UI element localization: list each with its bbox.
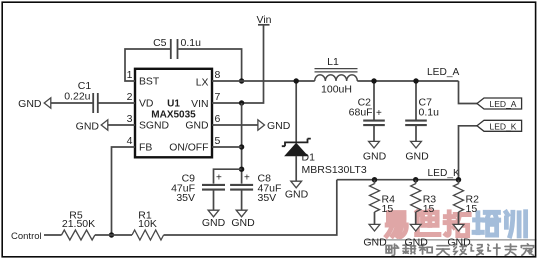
svg-text:+: + [216, 173, 222, 184]
svg-text:VIN: VIN [191, 99, 208, 110]
svg-text:2: 2 [127, 91, 133, 103]
watermark subtitle 射频和天线设计专家 [386, 244, 533, 256]
wire LED_A drop [459, 81, 478, 104]
wire pin5 ON/OFF [212, 146, 242, 148]
svg-text:8: 8 [215, 69, 221, 81]
ground pin6 [258, 120, 265, 130]
wire C7 to ground [415, 125, 417, 142]
wire C5 to LX node [178, 49, 241, 81]
ground R4 [369, 224, 380, 231]
svg-text:GND: GND [202, 217, 226, 229]
svg-text:GND: GND [18, 98, 42, 110]
svg-text:GND: GND [405, 237, 429, 249]
svg-text:4: 4 [127, 135, 133, 147]
node ON/OFF [239, 144, 244, 149]
resistor R4 [374, 180, 376, 184]
svg-text:15: 15 [423, 203, 435, 215]
wire LED_K riser to connector [459, 126, 478, 180]
svg-text:GND: GND [405, 151, 429, 163]
svg-text:SGND: SGND [139, 121, 169, 132]
ground C1 [44, 98, 51, 108]
watermark logo 易迪拓培训 [387, 211, 526, 237]
svg-text:35V: 35V [258, 192, 277, 204]
svg-text:10K: 10K [138, 218, 157, 230]
ground D1 [291, 181, 302, 188]
ground C9 [208, 210, 219, 217]
svg-text:6: 6 [215, 113, 221, 125]
svg-text:+: + [376, 108, 382, 119]
wire D1 to ground [295, 156, 297, 182]
watermark rule line [366, 239, 537, 241]
svg-text:ON/OFF: ON/OFF [169, 143, 208, 154]
connector LED_K [477, 120, 522, 131]
wire LX row to inductor and LED_A corner [212, 80, 459, 82]
wire Vin to VIN pin [212, 25, 264, 103]
wire C9 to ground [213, 190, 215, 211]
inductor L1 [315, 75, 358, 81]
svg-text:GND: GND [185, 121, 208, 132]
svg-text:MAX5035: MAX5035 [151, 110, 196, 121]
svg-text:GND: GND [231, 217, 255, 229]
svg-text:+: + [244, 173, 250, 184]
svg-text:LED_A: LED_A [490, 99, 517, 109]
wire C8 to ground [241, 190, 243, 211]
capacitor C2 [373, 81, 375, 120]
ground C8 [236, 210, 247, 217]
node caps junction [239, 167, 244, 172]
ground SGND [101, 120, 108, 130]
svg-text:BST: BST [139, 77, 160, 88]
node feedback [109, 232, 114, 237]
svg-text:35V: 35V [176, 192, 195, 204]
connector LED_A [477, 98, 522, 109]
capacitor C9 [202, 185, 225, 190]
svg-text:GND: GND [285, 189, 309, 201]
node VIN row [239, 100, 244, 105]
ground R3 [410, 224, 421, 231]
wire pin3 SGND to ground [108, 124, 135, 126]
svg-text:MBRS130LT3: MBRS130LT3 [302, 164, 367, 176]
wire pin4 FB down to feedback node [112, 147, 136, 235]
svg-text:GND: GND [447, 237, 471, 249]
svg-text:GND: GND [363, 151, 387, 163]
wire VIN node down to ON/OFF and caps [241, 103, 243, 184]
capacitor C1 [98, 102, 135, 104]
svg-text:15: 15 [466, 203, 478, 215]
svg-text:LX: LX [196, 78, 209, 89]
resistor R1 [132, 230, 164, 240]
svg-text:7: 7 [215, 91, 221, 103]
svg-text:U1: U1 [167, 99, 180, 110]
wire C2 to ground [373, 125, 375, 142]
IC U1 MAX5035 [135, 69, 212, 158]
wire R5 to node [95, 234, 132, 236]
svg-text:0.1u: 0.1u [181, 37, 202, 49]
svg-text:L1: L1 [327, 56, 339, 68]
svg-text:0.22u: 0.22u [64, 91, 90, 103]
svg-text:GND: GND [267, 120, 291, 132]
resistor R5 [62, 230, 95, 240]
svg-text:0.1u: 0.1u [419, 107, 440, 119]
wire Control to R5 [44, 234, 62, 236]
svg-text:FB: FB [139, 143, 152, 154]
ground C2 [369, 141, 380, 148]
wire BST to C5 [125, 49, 170, 81]
node LX [239, 78, 244, 83]
svg-text:1: 1 [127, 69, 133, 81]
resistor R2 [458, 180, 460, 184]
ground R2 [453, 224, 464, 231]
wire junction to C9 [214, 169, 242, 183]
svg-text:3: 3 [127, 113, 133, 125]
svg-text:C5: C5 [153, 37, 167, 49]
node R4 [372, 177, 377, 182]
diode D1 [295, 81, 297, 142]
capacitor C5 [171, 39, 178, 59]
svg-text:D1: D1 [302, 152, 316, 164]
node R2 [456, 177, 461, 182]
wire LED_K row [337, 179, 459, 181]
svg-text:VD: VD [139, 99, 153, 110]
capacitor C7 [415, 81, 417, 120]
svg-text:68uF: 68uF [349, 107, 373, 119]
svg-text:GND: GND [76, 121, 100, 133]
svg-text:Control: Control [11, 231, 42, 242]
resistor R3 [415, 180, 417, 184]
node R3 [413, 177, 418, 182]
svg-text:15: 15 [382, 203, 394, 215]
svg-text:100uH: 100uH [321, 84, 352, 96]
capacitor C8 [230, 185, 253, 190]
svg-text:LED_A: LED_A [427, 67, 459, 78]
svg-text:GND: GND [363, 237, 387, 249]
wire R1 to LED_K riser [164, 180, 337, 235]
svg-text:5: 5 [215, 135, 221, 147]
svg-text:LED_K: LED_K [428, 168, 460, 179]
svg-text:LED_K: LED_K [490, 122, 517, 132]
svg-text:21.50K: 21.50K [62, 218, 95, 230]
wire C1 to ground [50, 102, 93, 104]
ground C7 [411, 141, 422, 148]
wire pin6 GND to ground [212, 124, 258, 126]
